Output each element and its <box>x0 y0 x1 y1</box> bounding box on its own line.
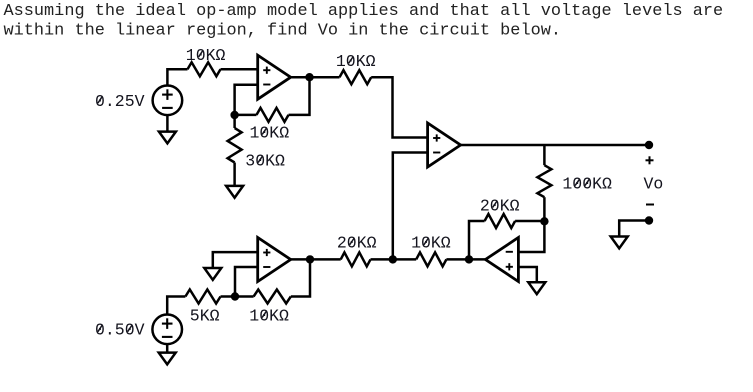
svg-text:0.50V: 0.50V <box>95 321 145 340</box>
svg-text:10KΩ: 10KΩ <box>186 46 226 65</box>
svg-text:5KΩ: 5KΩ <box>190 307 220 326</box>
svg-text:100KΩ: 100KΩ <box>562 175 612 194</box>
svg-text:30KΩ: 30KΩ <box>245 152 285 171</box>
svg-text:10KΩ: 10KΩ <box>249 307 289 326</box>
svg-text:Assuming the ideal op-amp mode: Assuming the ideal op-amp model applies … <box>4 2 724 21</box>
svg-text:20KΩ: 20KΩ <box>480 196 520 215</box>
svg-text:20KΩ: 20KΩ <box>337 234 377 253</box>
svg-text:within the linear region, find: within the linear region, find Vo in the… <box>4 22 561 41</box>
svg-text:0.25V: 0.25V <box>95 92 145 111</box>
svg-text:10KΩ: 10KΩ <box>411 234 451 253</box>
svg-text:Vo: Vo <box>644 175 664 194</box>
svg-text:10KΩ: 10KΩ <box>250 123 290 142</box>
svg-text:10KΩ: 10KΩ <box>336 52 376 71</box>
